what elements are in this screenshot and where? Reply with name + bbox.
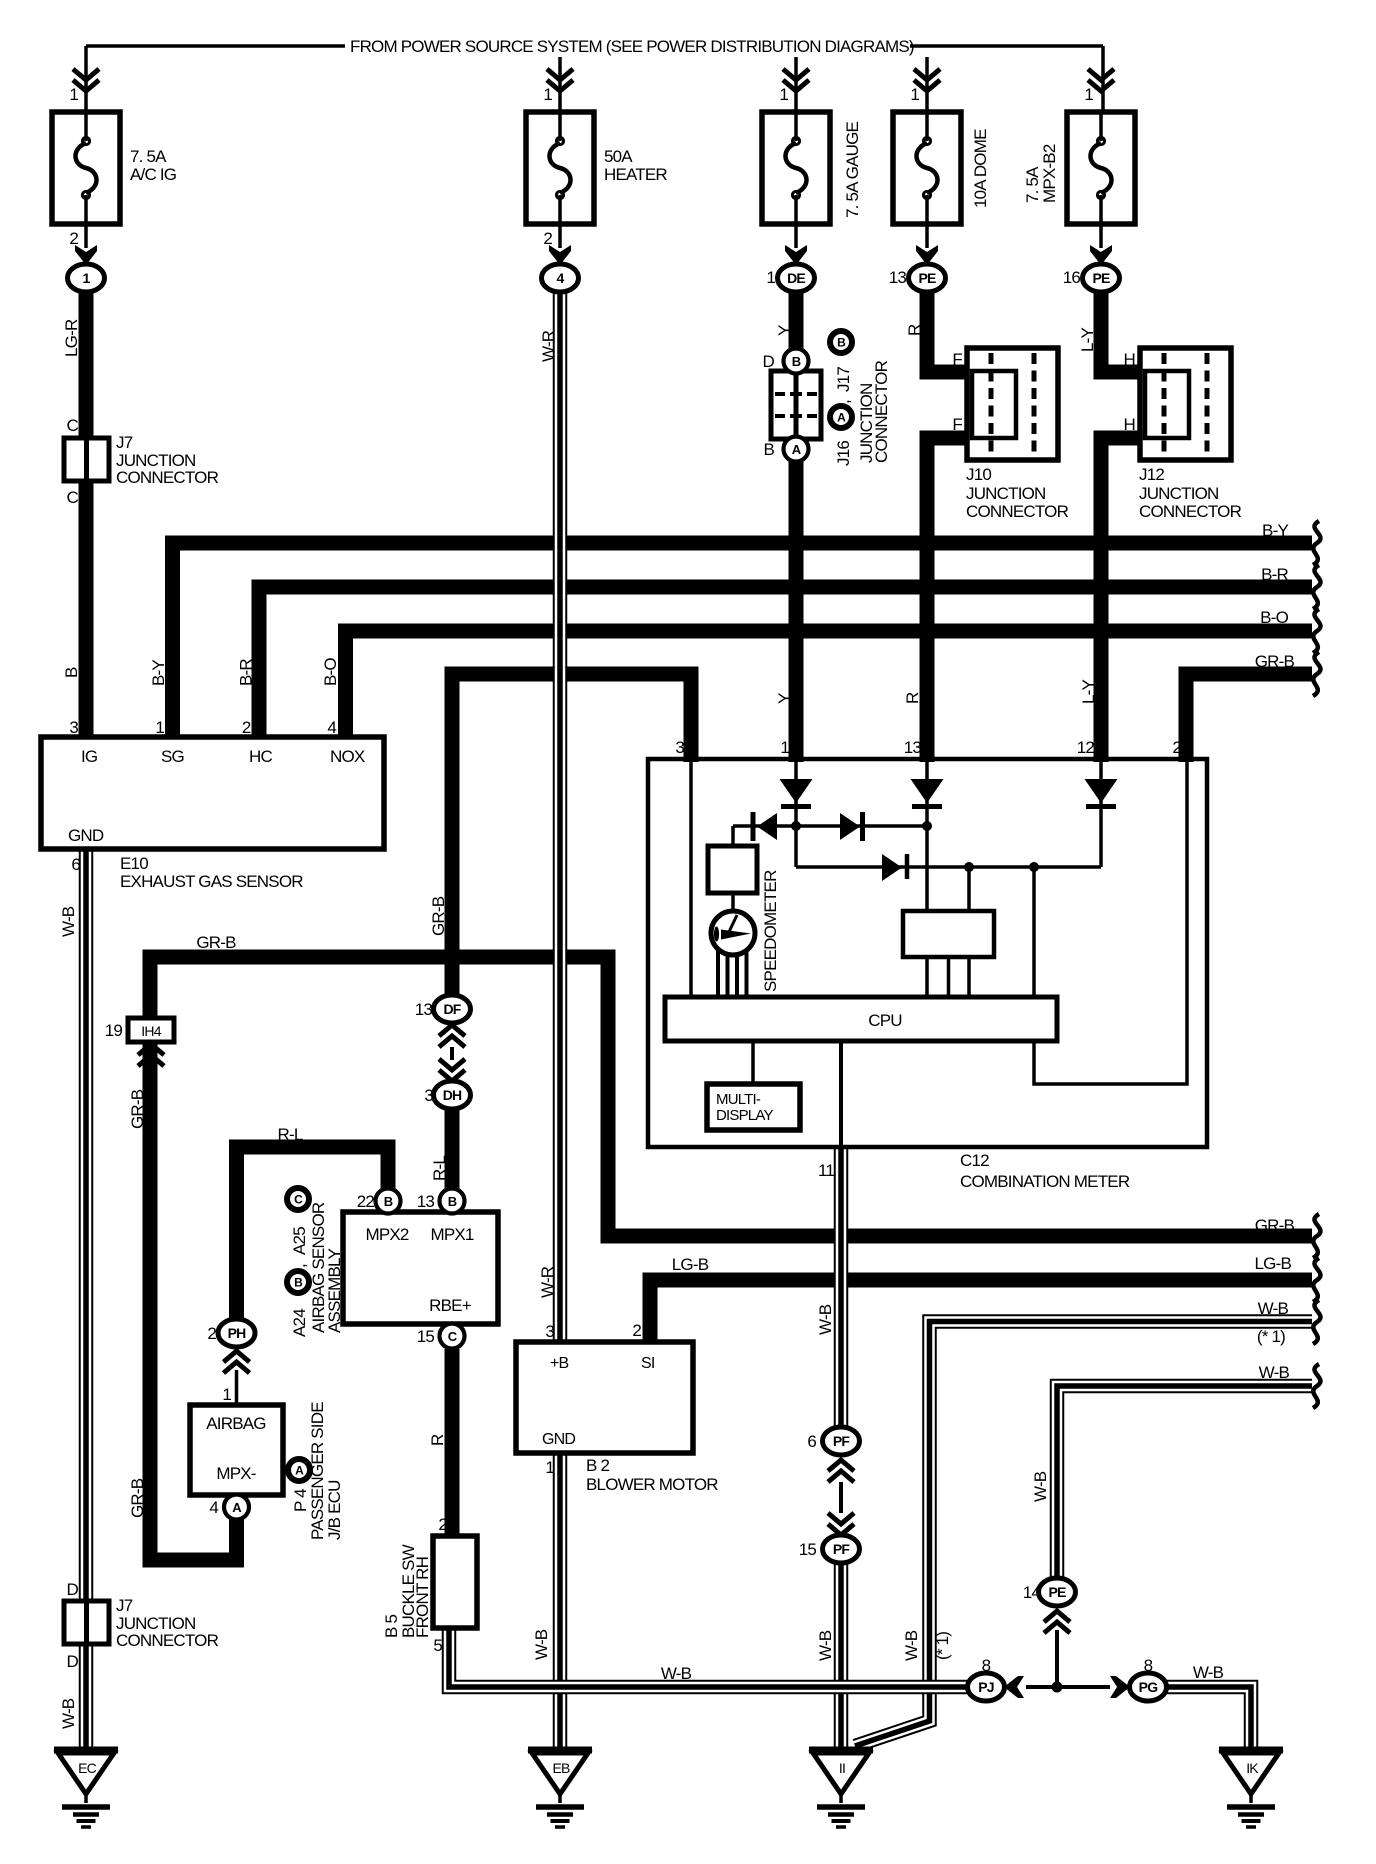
- svg-text:D: D: [67, 1652, 79, 1671]
- svg-text:C: C: [448, 1329, 458, 1344]
- wire meter pin12 internal: [1099, 761, 1103, 867]
- svg-text:H: H: [1124, 415, 1135, 434]
- svg-text:W-B: W-B: [902, 1630, 921, 1661]
- svg-text:B: B: [62, 667, 81, 678]
- wire cpu to multi-display: [751, 1041, 755, 1084]
- svg-text:1: 1: [766, 268, 775, 287]
- pin D J16 B: [784, 349, 809, 374]
- diode D3 meter pin12: [1085, 779, 1118, 803]
- svg-text:B: B: [384, 1194, 393, 1209]
- svg-text:J16: J16: [834, 441, 853, 466]
- pin 22 MPX2: [376, 1189, 401, 1214]
- junction dot bus2 a: [964, 862, 974, 872]
- svg-text:PJ: PJ: [978, 1679, 994, 1695]
- wire speedometer to cpu: [716, 948, 720, 997]
- svg-text:NOX: NOX: [330, 747, 365, 766]
- connector DH 3: [434, 1081, 471, 1109]
- svg-text:J17: J17: [834, 367, 853, 392]
- junction dot meter pin1-bus1: [791, 821, 801, 831]
- svg-text:R: R: [905, 324, 924, 336]
- wire Y fuse GAUGE to meter pin 1: [789, 292, 804, 762]
- svg-text:10A DOME: 10A DOME: [971, 129, 990, 208]
- svg-text:3: 3: [675, 738, 684, 757]
- connector PG 8: [1130, 1673, 1167, 1701]
- svg-text:W-B: W-B: [661, 1664, 692, 1683]
- svg-text:1: 1: [780, 738, 789, 757]
- svg-text:COMBINATION METER: COMBINATION METER: [960, 1172, 1130, 1191]
- svg-text:ASSEMBLY: ASSEMBLY: [325, 1249, 344, 1333]
- svg-text:22: 22: [357, 1192, 375, 1211]
- svg-text:LG-R: LG-R: [62, 319, 81, 357]
- svg-text:HEATER: HEATER: [604, 165, 667, 184]
- svg-text:R-L: R-L: [430, 1156, 449, 1181]
- fuse 50A HEATER: [526, 112, 594, 224]
- svg-text:1: 1: [83, 270, 91, 286]
- wire break LG-B: [1313, 1258, 1320, 1302]
- junction dot bus2 b: [1029, 862, 1039, 872]
- svg-text:7. 5A: 7. 5A: [130, 147, 167, 166]
- junction dot W-B: [1052, 1682, 1063, 1693]
- svg-text:BLOWER MOTOR: BLOWER MOTOR: [586, 1475, 718, 1494]
- svg-text:L-Y: L-Y: [1078, 327, 1097, 352]
- svg-text:A: A: [232, 1500, 242, 1515]
- svg-text:1: 1: [155, 718, 164, 737]
- svg-text:F: F: [952, 350, 962, 369]
- svg-text:D: D: [763, 352, 775, 371]
- svg-text:PH: PH: [228, 1325, 247, 1341]
- svg-text:GR-B: GR-B: [128, 1478, 147, 1518]
- diode D1 meter pin1: [780, 779, 813, 803]
- svg-text:RBE+: RBE+: [429, 1296, 472, 1315]
- svg-text:4: 4: [209, 1498, 218, 1517]
- svg-text:12: 12: [1077, 738, 1095, 757]
- svg-text:1: 1: [910, 85, 919, 104]
- svg-text:CONNECTOR: CONNECTOR: [872, 360, 891, 463]
- wire DF to DH link: [450, 1047, 454, 1060]
- svg-text:FROM POWER SOURCE SYSTEM (SEE: FROM POWER SOURCE SYSTEM (SEE POWER DIST…: [350, 37, 914, 56]
- junction connector J7 lower: [64, 1601, 109, 1644]
- wire break W-B pair: [1313, 1300, 1320, 1344]
- wire GR-B meter pin 2 to right edge: [1186, 674, 1312, 762]
- diode D5 right pointing: [840, 813, 860, 840]
- svg-text:HC: HC: [249, 747, 272, 766]
- arrow into PG: [1110, 1676, 1130, 1698]
- junction connector IH4: [128, 1018, 174, 1042]
- component airbag passenger side J/B ECU: [190, 1405, 283, 1495]
- svg-text:13: 13: [904, 738, 922, 757]
- svg-text:FRONT RH: FRONT RH: [413, 1557, 432, 1638]
- svg-text:W-B: W-B: [1031, 1471, 1050, 1502]
- ground II: [809, 1750, 873, 1827]
- svg-text:2: 2: [1172, 738, 1181, 757]
- svg-text:W-B: W-B: [532, 1629, 551, 1660]
- svg-text:1: 1: [779, 85, 788, 104]
- wire B-R bus E10 HC to right edge: [259, 587, 1312, 740]
- svg-text:6: 6: [807, 1432, 816, 1451]
- svg-text:JUNCTION: JUNCTION: [1139, 484, 1219, 503]
- diode D6 right pointing bus2: [882, 854, 902, 881]
- svg-text:B-Y: B-Y: [149, 660, 168, 686]
- svg-text:B: B: [792, 354, 801, 369]
- ref circle P4 A: [288, 1459, 310, 1481]
- component B5 buckle switch front RH: [433, 1536, 477, 1628]
- wire power feed left: [86, 44, 345, 48]
- svg-text:GR-B: GR-B: [1255, 1216, 1295, 1235]
- wire cpu to meter pin 11: [839, 1041, 843, 1147]
- gauge unit box: [903, 911, 994, 957]
- wire stub fuse GAUGE: [794, 57, 798, 112]
- svg-text:DE: DE: [787, 270, 805, 286]
- wire meter pin2 internal: [1034, 761, 1187, 1084]
- svg-text:A: A: [792, 442, 802, 457]
- svg-text:1: 1: [69, 85, 78, 104]
- svg-text:IH4: IH4: [141, 1023, 161, 1039]
- ground EB: [528, 1750, 592, 1827]
- svg-text:2: 2: [543, 229, 552, 248]
- svg-text:B: B: [763, 440, 774, 459]
- svg-text:W-B: W-B: [816, 1304, 835, 1335]
- svg-text:A/C IG: A/C IG: [130, 165, 176, 184]
- wire W-B buckle switch to PJ: [449, 1628, 968, 1687]
- wire LG-B blower SI to right edge: [650, 1280, 1312, 1342]
- svg-text:1: 1: [545, 1458, 554, 1477]
- svg-text:CPU: CPU: [868, 1011, 902, 1030]
- pin B J16 A: [784, 437, 809, 462]
- wire bus2 to gauge unit box: [967, 867, 971, 912]
- svg-text:DH: DH: [443, 1087, 462, 1103]
- wire GR-B bus segment to meter pin 3 and drop to DF: [452, 674, 691, 996]
- svg-text:(* 1): (* 1): [933, 1632, 952, 1660]
- wire W-B meter pin 11 to PF: [834, 1147, 849, 1428]
- wire break GR-B bus: [1313, 652, 1320, 696]
- svg-text:H: H: [1124, 350, 1135, 369]
- wire break B-R: [1313, 565, 1320, 609]
- svg-text:DF: DF: [443, 1001, 461, 1017]
- wire power feed right: [910, 44, 1103, 48]
- wire L-Y J12 to meter pin 12: [1101, 438, 1140, 762]
- svg-text:8: 8: [982, 1656, 991, 1675]
- svg-text:4: 4: [557, 270, 565, 286]
- svg-text:2: 2: [207, 1324, 216, 1343]
- svg-text:1: 1: [543, 85, 552, 104]
- svg-text:GND: GND: [542, 1431, 575, 1448]
- ground EC: [54, 1750, 118, 1827]
- wire GR-B horizontal and right branch to right edge: [150, 957, 1312, 1236]
- fuse 10A DOME: [893, 112, 961, 224]
- svg-text:15: 15: [799, 1540, 817, 1559]
- connector DF 13: [434, 995, 471, 1023]
- fuse 7.5A A/C IG: [52, 112, 120, 224]
- svg-text:W-R: W-R: [538, 1266, 557, 1298]
- cpu box: [665, 997, 1057, 1041]
- connector PF 6: [823, 1427, 860, 1455]
- svg-text:GND: GND: [68, 826, 104, 845]
- wire PJ to PG link: [1026, 1685, 1110, 1689]
- svg-text:E10: E10: [120, 854, 148, 873]
- label J16 J17 junction connector: [830, 331, 852, 353]
- svg-text:B 2: B 2: [586, 1456, 609, 1475]
- pin 15 RBE+: [440, 1324, 465, 1349]
- component B2 blower motor: [516, 1342, 693, 1453]
- wire PE to junction dot: [1055, 1630, 1059, 1687]
- svg-text:1: 1: [1084, 85, 1093, 104]
- svg-text:SI: SI: [641, 1355, 655, 1372]
- svg-text:IG: IG: [81, 747, 97, 766]
- wire stub fuse DOME: [925, 57, 929, 112]
- svg-text:8: 8: [1144, 1656, 1153, 1675]
- svg-text:F: F: [952, 415, 962, 434]
- svg-text:PF: PF: [833, 1541, 851, 1557]
- wire break GR-B lower: [1313, 1214, 1320, 1258]
- wire GR-B airbag MPX- pin 4 down: [229, 1519, 244, 1567]
- svg-text:J7: J7: [116, 1596, 133, 1615]
- wire R-L MPX2 to PH: [237, 1147, 389, 1320]
- svg-text:PF: PF: [833, 1433, 851, 1449]
- svg-text:IK: IK: [1246, 1760, 1259, 1776]
- svg-text:PG: PG: [1139, 1679, 1159, 1695]
- svg-text:14: 14: [1023, 1583, 1041, 1602]
- svg-text:3: 3: [69, 718, 78, 737]
- svg-text:GR-B: GR-B: [1255, 652, 1295, 671]
- wire stub fuse HEATER: [558, 57, 562, 112]
- svg-text:(* 1): (* 1): [1257, 1327, 1285, 1346]
- svg-text:C: C: [67, 488, 79, 507]
- svg-text:PE: PE: [1048, 1584, 1066, 1600]
- component airbag sensor assembly: [343, 1212, 498, 1324]
- speedometer driver box: [708, 846, 757, 893]
- svg-text:MULTI-: MULTI-: [716, 1091, 761, 1108]
- svg-text:3: 3: [424, 1086, 433, 1105]
- svg-text:EB: EB: [552, 1760, 570, 1776]
- svg-text:A: A: [295, 1464, 304, 1478]
- svg-text:J/B ECU: J/B ECU: [325, 1480, 344, 1540]
- ground IK: [1219, 1750, 1283, 1827]
- svg-text:MPX1: MPX1: [430, 1225, 473, 1244]
- wire W-B PF to ground II: [834, 1562, 849, 1750]
- wire R-L DH to MPX1: [445, 1109, 460, 1190]
- svg-text:B: B: [294, 1276, 303, 1290]
- svg-text:W-B: W-B: [59, 906, 78, 937]
- wire B-O bus E10 NOX to right edge: [346, 631, 1313, 740]
- svg-text:,: ,: [290, 1264, 309, 1268]
- wire gauge unit to cpu: [925, 957, 929, 997]
- svg-text:1: 1: [222, 1385, 231, 1404]
- svg-text:B-R: B-R: [1261, 565, 1288, 584]
- svg-text:W-B: W-B: [1258, 1299, 1289, 1318]
- wire R fuse DOME to J10 pin F: [927, 292, 967, 372]
- diode D4 left pointing: [757, 813, 777, 840]
- svg-text:2: 2: [438, 1515, 447, 1534]
- svg-text:+B: +B: [550, 1355, 569, 1372]
- svg-text:PE: PE: [1092, 270, 1110, 286]
- wire B-Y bus E10 SG to right edge: [173, 543, 1313, 740]
- svg-text:GR-B: GR-B: [128, 1089, 147, 1129]
- ref circle A24 B: [287, 1271, 309, 1293]
- svg-text:6: 6: [71, 855, 80, 874]
- svg-text:J12: J12: [1139, 465, 1164, 484]
- svg-text:LG-B: LG-B: [672, 1255, 709, 1274]
- wire W-B E10 GND to ground EC: [79, 849, 94, 1750]
- svg-text:7. 5A GAUGE: 7. 5A GAUGE: [843, 121, 862, 218]
- junction dot meter pin13-bus1: [922, 821, 932, 831]
- wire meter pin3 internal: [689, 761, 693, 997]
- wire bus2 to cpu: [1032, 867, 1036, 997]
- svg-text:JUNCTION: JUNCTION: [966, 484, 1046, 503]
- svg-text:W-R: W-R: [539, 330, 558, 362]
- svg-text:C: C: [294, 1193, 303, 1207]
- svg-text:15: 15: [417, 1327, 435, 1346]
- svg-text:CONNECTOR: CONNECTOR: [116, 468, 219, 487]
- pin 13 MPX1: [440, 1189, 465, 1214]
- svg-text:SPEEDOMETER: SPEEDOMETER: [761, 870, 780, 992]
- svg-text:B-O: B-O: [1260, 608, 1288, 627]
- wire driver to speedometer: [731, 893, 735, 913]
- svg-text:DISPLAY: DISPLAY: [716, 1107, 773, 1124]
- wire R J10 to meter pin 13: [927, 438, 967, 762]
- svg-text:LG-B: LG-B: [1255, 1254, 1292, 1273]
- svg-text:PE: PE: [918, 270, 936, 286]
- svg-text:R-L: R-L: [278, 1125, 303, 1144]
- svg-text:A24: A24: [290, 1309, 309, 1337]
- wire W-B PG to ground IK: [1166, 1687, 1251, 1750]
- svg-text:C12: C12: [960, 1151, 989, 1170]
- svg-text:B-O: B-O: [321, 658, 340, 686]
- connector PE 14: [1039, 1578, 1076, 1606]
- svg-text:2: 2: [69, 229, 78, 248]
- component C12 combination meter: [648, 759, 1207, 1147]
- junction connector J16/J17: [771, 371, 821, 439]
- connector PJ 8: [968, 1673, 1005, 1701]
- wire W-B right edge to PE: [1057, 1386, 1312, 1580]
- ref circle A25 C: [287, 1188, 309, 1210]
- fuse 7.5A GAUGE: [762, 112, 830, 224]
- wire break B-O: [1313, 609, 1320, 653]
- svg-text:50A: 50A: [604, 147, 633, 166]
- svg-text:CONNECTOR: CONNECTOR: [966, 502, 1069, 521]
- wire L-Y fuse MPX-B2 to J12 pin H: [1101, 292, 1140, 372]
- wire PH to airbag pin 1: [235, 1370, 239, 1405]
- svg-text:A25: A25: [290, 1227, 309, 1255]
- svg-text:B-Y: B-Y: [1262, 521, 1288, 540]
- svg-text:W-B: W-B: [1259, 1363, 1290, 1382]
- wire meter internal bus2: [796, 865, 1101, 869]
- svg-text:B: B: [448, 1194, 457, 1209]
- wire GR-B IH4 branch down to airbag link: [150, 1042, 244, 1560]
- svg-text:II: II: [839, 1760, 845, 1776]
- wire W-R heater fuse to blower +B: [553, 292, 568, 1342]
- svg-text:L-Y: L-Y: [1079, 679, 1098, 704]
- svg-text:5: 5: [433, 1636, 442, 1655]
- svg-text:AIRBAG: AIRBAG: [206, 1414, 265, 1433]
- component E10 exhaust gas sensor: [41, 737, 384, 849]
- junction connector J10: [967, 348, 1058, 460]
- wire meter pin13 internal: [925, 761, 929, 912]
- svg-text:CONNECTOR: CONNECTOR: [1139, 502, 1242, 521]
- arrow into PJ: [1004, 1676, 1024, 1698]
- wire break W-B PE: [1313, 1364, 1320, 1408]
- svg-text:EC: EC: [78, 1760, 97, 1776]
- multi-display box: [707, 1084, 800, 1130]
- pin 4 airbag MPX-: [224, 1495, 249, 1520]
- diode D2 meter pin13: [911, 779, 944, 803]
- svg-text:B: B: [837, 336, 846, 350]
- wire B J7 to E10 IG pin 3: [79, 481, 94, 740]
- svg-text:MPX-: MPX-: [216, 1464, 255, 1483]
- wire PF6 to PF15 link: [839, 1482, 843, 1513]
- wire LG-R fuse to J7: [79, 292, 94, 438]
- svg-text:W-B: W-B: [59, 1698, 78, 1729]
- svg-text:3: 3: [545, 1322, 554, 1341]
- svg-text:13: 13: [889, 268, 907, 287]
- connector PF 15: [823, 1535, 860, 1563]
- svg-text:R: R: [428, 1434, 447, 1446]
- svg-text:GR-B: GR-B: [196, 933, 236, 952]
- svg-text:J10: J10: [966, 465, 991, 484]
- svg-text:CONNECTOR: CONNECTOR: [116, 1631, 219, 1650]
- svg-text:11: 11: [818, 1161, 834, 1180]
- wire meter pin1 internal: [794, 761, 798, 867]
- svg-text:2: 2: [242, 718, 251, 737]
- svg-text:EXHAUST GAS SENSOR: EXHAUST GAS SENSOR: [120, 872, 303, 891]
- svg-text:D: D: [67, 1580, 79, 1599]
- svg-text:Y: Y: [775, 693, 794, 704]
- svg-text:SG: SG: [161, 747, 184, 766]
- svg-text:19: 19: [105, 1021, 123, 1040]
- svg-text:W-B: W-B: [1193, 1663, 1224, 1682]
- svg-text:A: A: [837, 411, 846, 425]
- svg-text:2: 2: [632, 1321, 641, 1340]
- junction connector J12: [1140, 348, 1231, 460]
- svg-text:C: C: [67, 416, 79, 435]
- wire meter internal bus1: [733, 824, 928, 828]
- wire W-B blower GND to ground EB: [553, 1453, 568, 1750]
- svg-text:B-R: B-R: [237, 659, 256, 686]
- wire W-B and (*1) pair to ground II: [855, 1322, 1312, 1747]
- svg-text:MPX2: MPX2: [365, 1225, 408, 1244]
- svg-text:13: 13: [415, 1000, 433, 1019]
- svg-text:R: R: [903, 692, 922, 704]
- svg-text:J7: J7: [116, 433, 133, 452]
- connector PH 2: [218, 1319, 255, 1347]
- svg-text:4: 4: [327, 718, 336, 737]
- fuse 7.5A MPX-B2: [1067, 112, 1135, 224]
- svg-text:Y: Y: [775, 325, 794, 336]
- svg-text:GR-B: GR-B: [429, 896, 448, 936]
- svg-text:13: 13: [417, 1192, 435, 1211]
- svg-text:16: 16: [1063, 268, 1081, 287]
- wire break B-Y: [1313, 521, 1320, 565]
- svg-text:MPX-B2: MPX-B2: [1040, 144, 1059, 203]
- junction connector J7 upper: [64, 438, 109, 481]
- svg-text:W-B: W-B: [816, 1630, 835, 1661]
- wire R RBE+ to buckle switch: [445, 1349, 460, 1536]
- speedometer gauge: [711, 911, 755, 955]
